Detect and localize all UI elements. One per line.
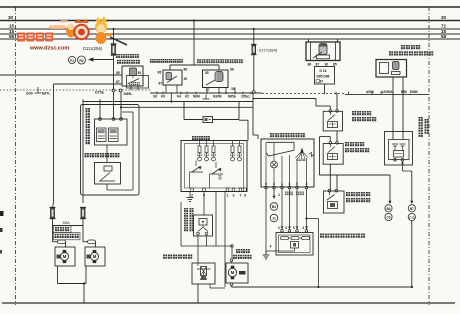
wire LP to thermostat	[329, 164, 331, 189]
bottom ground bus	[2, 302, 455, 304]
svg-text:1: 1	[278, 193, 280, 197]
arrow pos 1	[273, 189, 275, 198]
svg-text:N85a: N85a	[228, 95, 236, 99]
wire 85 feed	[0, 74, 122, 76]
connector ovals	[52, 226, 54, 242]
svg-text:www.dzsc.com: www.dzsc.com	[29, 46, 69, 52]
svg-text:5: 5	[296, 182, 298, 186]
solenoid label	[163, 255, 167, 259]
svg-text:B7: B7	[410, 207, 414, 211]
bus line 58	[0, 38, 460, 40]
recirc control box	[194, 215, 213, 236]
wire arrow to R2	[93, 59, 114, 61]
svg-text:M: M	[63, 254, 67, 259]
svg-text:85: 85	[205, 71, 209, 75]
node C9	[385, 213, 392, 220]
svg-text:30: 30	[8, 15, 14, 20]
svg-text:D85 D86: D85 D86	[317, 75, 330, 79]
svg-text:86: 86	[184, 68, 188, 72]
contact box	[95, 119, 128, 145]
link wire y175	[320, 174, 391, 176]
inner links	[195, 161, 197, 167]
svg-text:3: 3	[278, 226, 280, 230]
AC blower motor label	[236, 249, 240, 253]
LP protect label	[345, 142, 349, 146]
svg-text:F1: F1	[70, 59, 74, 63]
bus line 15	[0, 33, 460, 35]
svg-text:58: 58	[441, 34, 447, 39]
svg-text:87: 87	[206, 88, 210, 92]
pin row	[191, 188, 194, 192]
fuse 50A no2	[81, 208, 85, 219]
relay K1 cooling fan low-speed label	[116, 54, 120, 58]
node D89L	[119, 89, 122, 92]
svg-text:6: 6	[265, 182, 267, 186]
bus line 30	[0, 20, 460, 22]
wires K2 down	[165, 85, 167, 93]
wire to AC switch	[239, 119, 248, 121]
recirc solenoid valve	[192, 263, 215, 284]
wire C10 down	[411, 221, 413, 287]
lamps and resistors	[198, 146, 201, 153]
fuse S117	[253, 28, 255, 30]
relay K2	[163, 70, 182, 85]
condenser motor 2	[85, 247, 105, 266]
node B7	[408, 205, 415, 212]
wire HP top right to row	[336, 93, 338, 110]
node D70a	[112, 89, 115, 92]
wire to fan switch	[253, 134, 258, 136]
svg-text:A956: A956	[366, 90, 374, 94]
HP protect switch	[323, 111, 342, 131]
rotary contour	[267, 142, 295, 156]
svg-text:1: 1	[281, 182, 283, 186]
svg-text:30: 30	[441, 15, 447, 20]
svg-text:85: 85	[333, 63, 337, 67]
svg-text:N9M: N9M	[193, 95, 200, 99]
clutch bottom wire	[402, 161, 404, 171]
wires to resistor pack	[281, 189, 283, 230]
svg-text:M: M	[231, 270, 235, 275]
svg-text:30: 30	[325, 63, 329, 67]
connector row solid right	[150, 92, 262, 94]
long wires from AC pins	[215, 192, 217, 247]
svg-text:D111(256): D111(256)	[83, 46, 103, 51]
svg-text:K9: K9	[161, 95, 165, 99]
scan marks	[0, 211, 4, 216]
svg-text:G30: G30	[26, 92, 33, 96]
AC blower motor label vertical	[419, 117, 423, 121]
node 205a1	[252, 91, 255, 94]
motor return	[231, 262, 233, 263]
svg-text:E87L: E87L	[42, 92, 51, 96]
label high pressure switch	[85, 153, 89, 157]
bus line 71	[0, 28, 460, 30]
svg-text:6: 6	[244, 194, 246, 198]
wire socket down	[324, 84, 326, 93]
svg-text:3: 3	[233, 194, 235, 198]
compressor clutch box	[385, 132, 413, 166]
wire pin5 to recirc box	[203, 192, 205, 216]
node R2	[78, 56, 86, 64]
thermostat switch	[324, 191, 345, 213]
resistor pack label	[320, 234, 324, 238]
fuse D111	[112, 28, 114, 30]
wire HP to LP	[336, 131, 338, 142]
wire S117 down	[252, 93, 254, 135]
bus line 1	[0, 6, 460, 8]
svg-text:C10: C10	[409, 216, 415, 220]
svg-text:7: 7	[240, 194, 242, 198]
relay K3 label	[197, 59, 201, 63]
svg-text:71: 71	[441, 24, 447, 29]
relay K5	[376, 60, 407, 78]
svg-text:50A: 50A	[63, 220, 70, 225]
contacts	[97, 128, 107, 142]
solenoid wires	[197, 284, 199, 303]
svg-text:2: 2	[191, 194, 193, 198]
relay K4	[308, 39, 310, 42]
LP protect switch	[323, 144, 343, 165]
svg-text:30: 30	[184, 77, 188, 81]
label condenser fan switch	[86, 108, 90, 112]
svg-text:3: 3	[273, 182, 275, 186]
svg-text:U6: U6	[153, 95, 157, 99]
thermostat label	[346, 192, 350, 196]
tee symbol mid row	[205, 95, 207, 99]
node J1	[270, 214, 278, 222]
fan switch wires	[265, 142, 267, 187]
svg-text:K2: K2	[185, 95, 189, 99]
blower fan switch	[261, 139, 314, 187]
svg-text:B4: B4	[386, 207, 390, 211]
svg-text:4: 4	[302, 226, 304, 230]
condenser fan switch enclosure	[81, 105, 140, 196]
label condenser blower motor	[54, 226, 72, 233]
svg-text:86: 86	[308, 63, 312, 67]
wires into contact box	[99, 99, 101, 119]
svg-text:N30M: N30M	[213, 95, 222, 99]
svg-text:30: 30	[138, 71, 142, 75]
thermo link wire	[307, 218, 319, 220]
arrow to B4r	[389, 175, 391, 203]
wires K3 down	[206, 88, 208, 94]
bypass wire left	[329, 137, 331, 142]
wire K1 87 left	[54, 83, 123, 85]
boundary dash-dot left	[15, 7, 17, 305]
boundary dash-dot right	[428, 7, 430, 305]
svg-text:S117(36A): S117(36A)	[259, 48, 278, 53]
svg-text:87: 87	[320, 80, 324, 84]
svg-text:R2: R2	[79, 59, 83, 63]
svg-text:4: 4	[289, 182, 291, 186]
svg-text:B4: B4	[272, 205, 276, 209]
svg-text:86: 86	[230, 68, 234, 72]
svg-text:15: 15	[9, 24, 15, 29]
wire 86 feed from bus30	[193, 19, 195, 21]
node F1	[68, 56, 75, 63]
node B4	[270, 203, 278, 211]
svg-text:D89L: D89L	[124, 92, 134, 96]
wire mid bus A	[83, 101, 253, 103]
svg-text:87: 87	[116, 80, 120, 84]
svg-text:A205b3: A205b3	[381, 90, 393, 94]
svg-text:4: 4	[270, 245, 272, 249]
HP protect label	[352, 111, 356, 115]
svg-text:87: 87	[316, 63, 320, 67]
indicator lamp	[271, 161, 278, 168]
svg-text:D 16: D 16	[320, 69, 327, 73]
svg-text:2: 2	[306, 182, 308, 186]
svg-text:J1: J1	[272, 217, 276, 221]
inner wires	[106, 145, 108, 163]
svg-text:87: 87	[159, 82, 163, 86]
relay K3	[203, 70, 229, 88]
svg-text:1: 1	[227, 194, 229, 198]
socket box K4	[315, 67, 335, 85]
watermark dzsc logo	[17, 16, 127, 52]
svg-text:E88: E88	[401, 90, 407, 94]
AC switch box	[181, 141, 247, 192]
wire K1 pins down	[130, 86, 132, 90]
svg-text:205a1: 205a1	[241, 95, 250, 99]
AC blower motor	[226, 263, 248, 283]
node B4 right	[385, 205, 392, 212]
ground below AC switch	[189, 192, 191, 198]
fuse 50A no1	[51, 208, 55, 219]
svg-text:58: 58	[9, 34, 15, 39]
relay K5 label	[401, 45, 405, 49]
svg-text:D70a: D70a	[95, 91, 105, 95]
wire mid bus B	[121, 106, 254, 108]
resistor pack	[281, 227, 284, 230]
clutch coil contacts	[392, 143, 398, 145]
wires below recirc	[197, 235, 199, 263]
wire fuse to node D70a	[113, 55, 115, 89]
svg-text:C9: C9	[386, 216, 390, 220]
connector row dotted left	[0, 89, 150, 91]
push switches	[190, 171, 204, 173]
svg-text:5: 5	[293, 226, 295, 230]
svg-text:K4: K4	[177, 95, 181, 99]
svg-text:E88K: E88K	[410, 90, 419, 94]
pressure switch box	[95, 163, 121, 185]
wire pin6 to ground	[265, 189, 267, 255]
wire mid bus A2	[253, 98, 316, 100]
node C10	[408, 213, 415, 220]
relay K1	[122, 66, 143, 86]
relay K2 label	[150, 59, 154, 63]
condenser motor 1	[55, 247, 75, 266]
fan switch label	[270, 133, 274, 137]
svg-text:85: 85	[158, 71, 162, 75]
wires K5 down to motor	[392, 77, 394, 140]
recirc label	[184, 208, 188, 212]
diode resistor branch	[183, 102, 185, 120]
AC switch label	[192, 136, 196, 140]
svg-text:01234: 01234	[297, 158, 306, 162]
svg-text:30: 30	[231, 87, 235, 91]
wire to fuse2	[82, 99, 84, 104]
wire resistor to ground	[266, 250, 276, 252]
svg-text:6: 6	[285, 226, 287, 230]
svg-text:85: 85	[116, 71, 120, 75]
motor return wires	[57, 266, 59, 284]
svg-text:M: M	[93, 254, 97, 259]
